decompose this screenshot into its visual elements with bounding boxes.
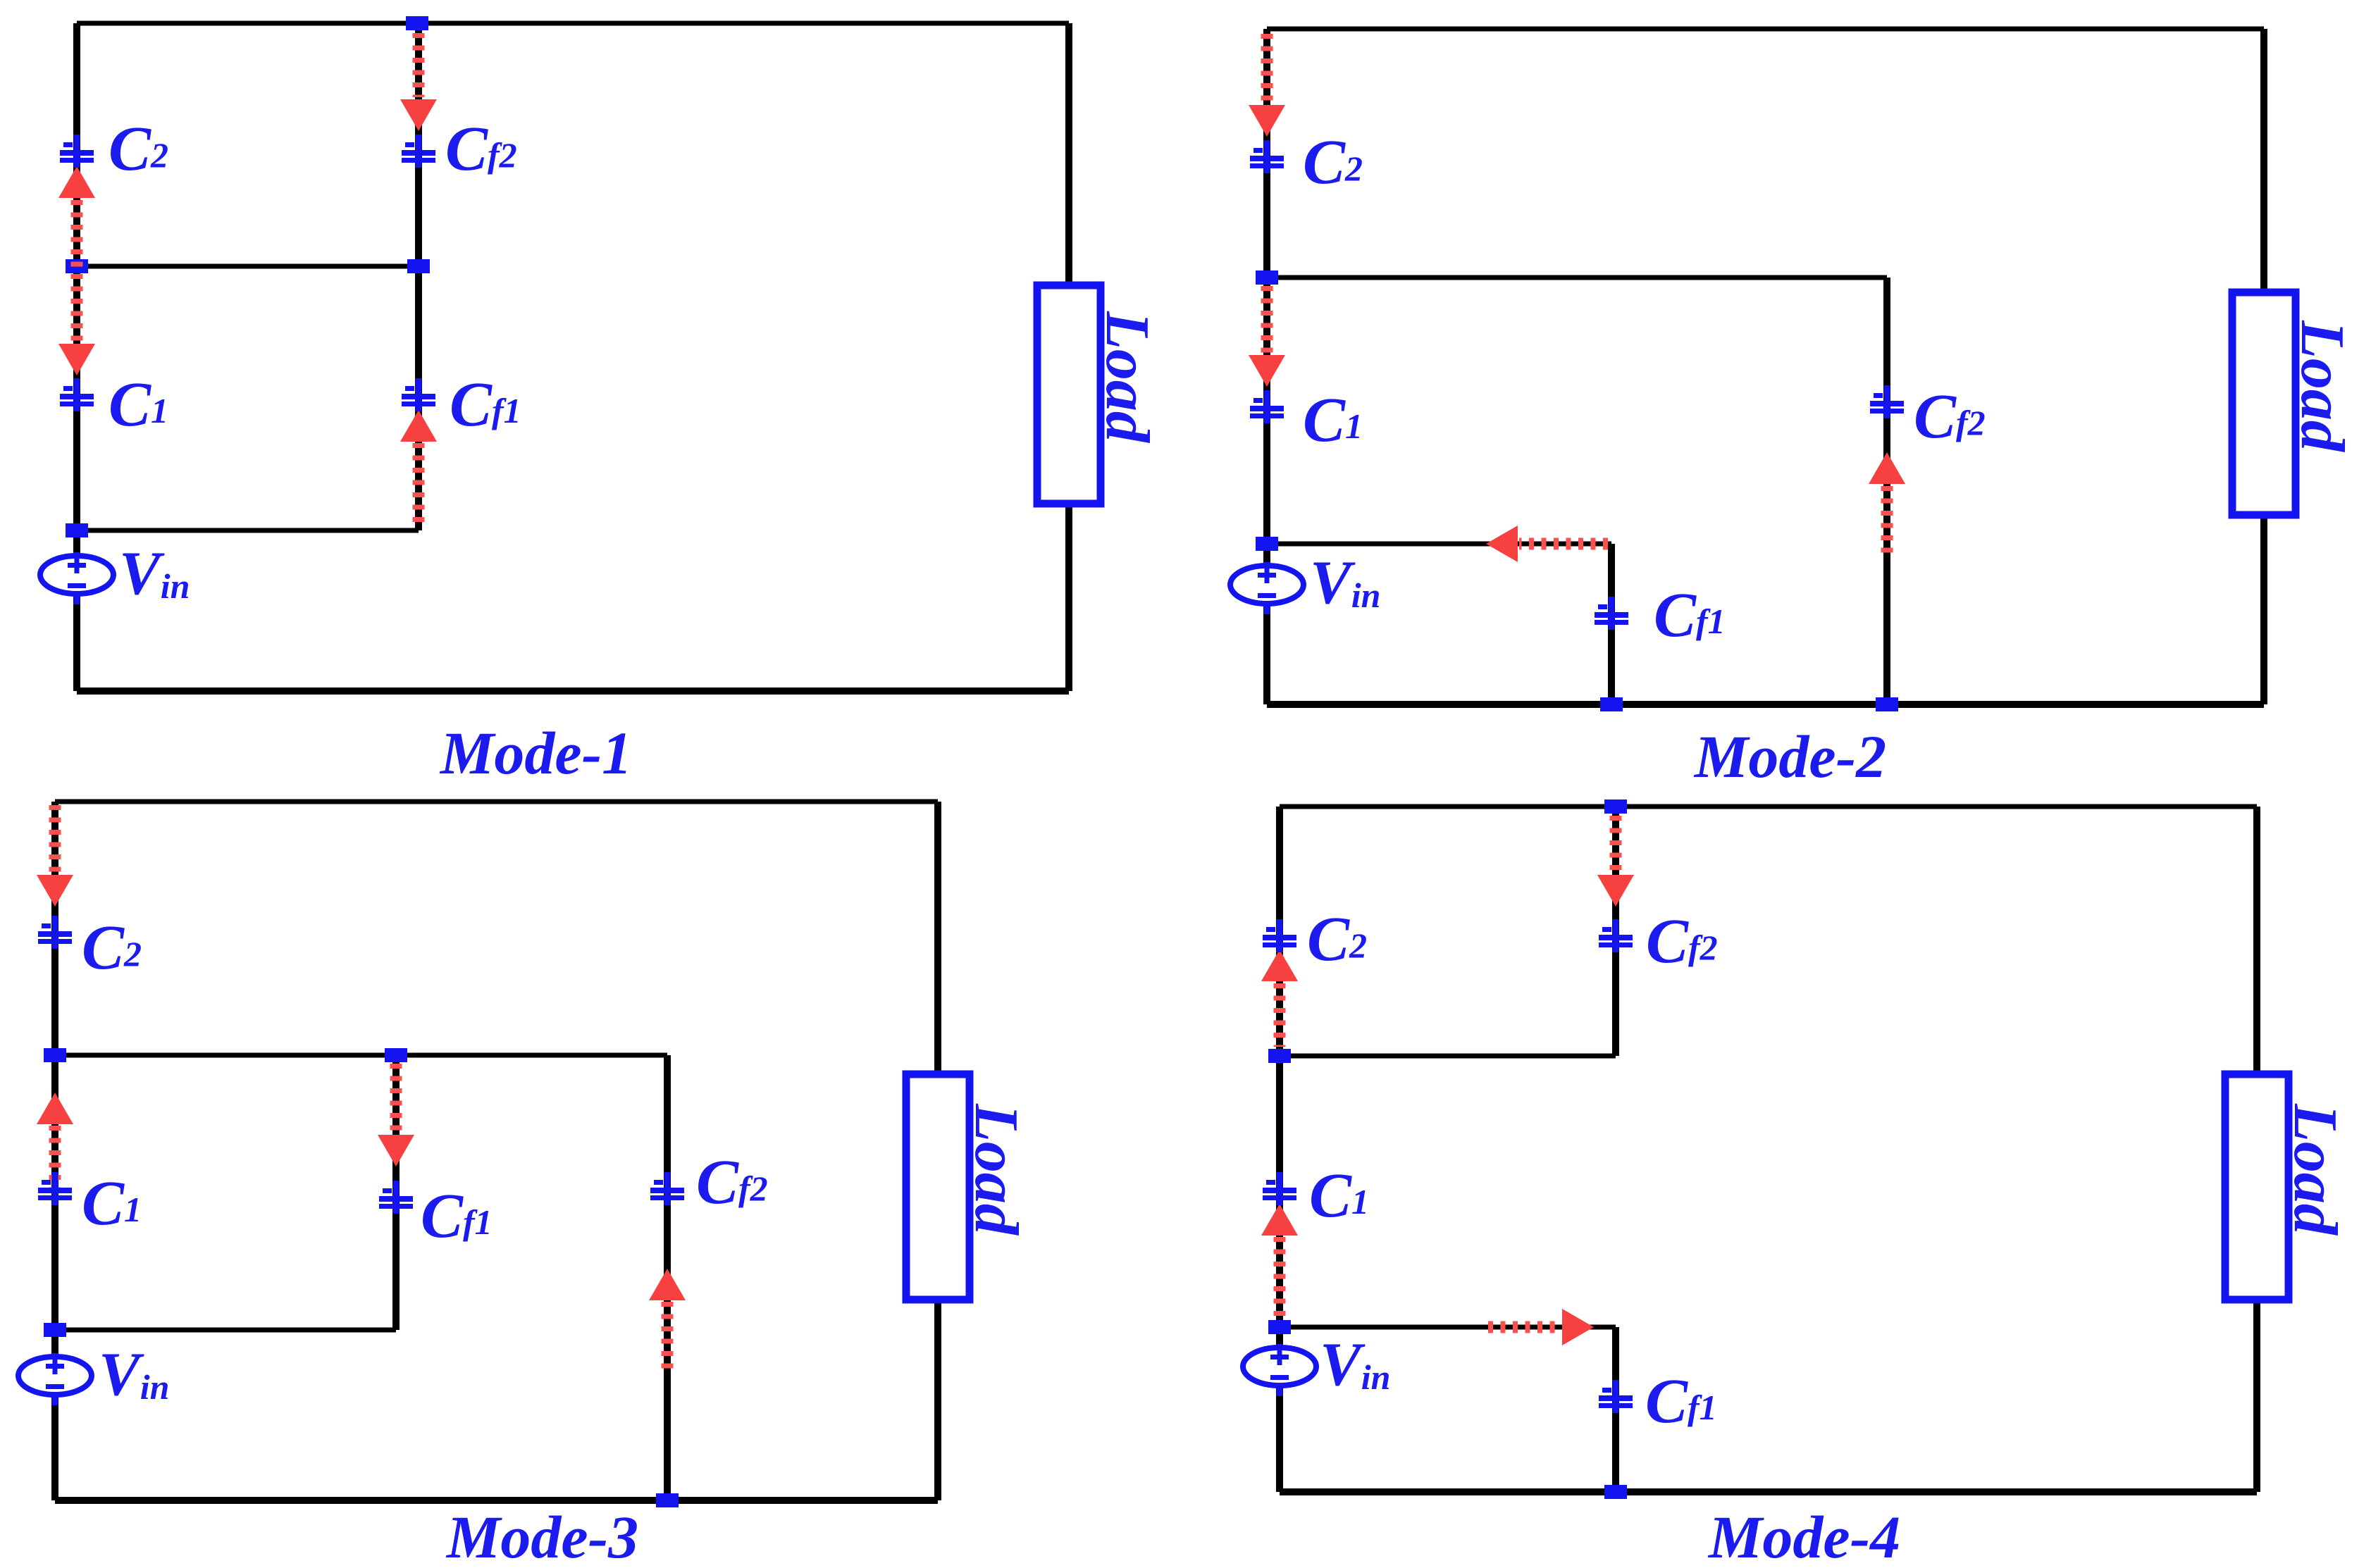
capacitor Cf1 (Mode-4) — [1599, 1380, 1633, 1413]
node m1 top-junction (junction square) — [406, 16, 428, 30]
wire m4 right upper — [2253, 807, 2260, 1078]
wire m3 right upper — [934, 802, 941, 1078]
capacitor C1 (Mode-2) — [1250, 390, 1284, 423]
wire m2 Cf1-branch — [1608, 544, 1615, 704]
wire m4 B-connector — [1280, 1325, 1616, 1330]
wire m4 A-connector — [1280, 1054, 1616, 1059]
node m1 node A right (junction square) — [407, 259, 430, 273]
wire m2 top-C2 current dashes — [1261, 34, 1273, 103]
wire m4 top-Cf2 current dashes — [1610, 816, 1622, 873]
svg-text:Mode-3: Mode-3 — [445, 1503, 638, 1568]
current arrow m4 into C2 — [1261, 950, 1298, 981]
svg-text:Mode-2: Mode-2 — [1693, 723, 1886, 790]
wire m2 top — [1267, 27, 2264, 32]
current arrow m2 into Cf2 — [1869, 452, 1905, 484]
svg-text:Load: Load — [962, 1103, 1030, 1236]
wire m3 left — [51, 802, 58, 1500]
wire m4 left — [1276, 807, 1283, 1492]
wire m4 bottom — [1280, 1488, 2257, 1495]
current arrow m3 into C2 — [37, 875, 73, 907]
node m4 node B (junction square) — [1268, 1320, 1291, 1334]
wire m1 top-Cf2 current dashes — [413, 33, 425, 97]
current arrow m1 into Cf2 — [400, 99, 437, 131]
wire m2 corner-arrow current dashes — [1519, 538, 1608, 550]
wire m2 B-connector — [1267, 542, 1611, 547]
node m3 node B (junction square) — [44, 1323, 66, 1337]
wire m2 A-C1 current dashes — [1261, 286, 1273, 353]
svg-text:Load: Load — [1093, 311, 1161, 444]
node m1 node A left (junction square) — [66, 259, 88, 273]
capacitor Cf2 (Mode-3) — [650, 1172, 684, 1205]
current arrow m1 into Cf1 — [400, 410, 437, 442]
wire m2 right lower — [2260, 513, 2267, 704]
capacitor Cf2 (Mode-4) — [1599, 919, 1633, 952]
load resistor m3-load — [906, 1074, 1030, 1300]
capacitor Cf1 (Mode-2) — [1595, 597, 1628, 630]
wire m3 Cf2-branch — [664, 1055, 671, 1500]
node m3 node A2 (junction square) — [385, 1048, 407, 1062]
current arrow m1 into C1 — [58, 344, 95, 375]
voltage source Vin (Mode-1) — [40, 552, 113, 604]
wire m4 B-C1 current dashes — [1274, 1237, 1286, 1318]
wire m1 A-connector — [77, 264, 419, 269]
voltage source Vin (Mode-2) — [1230, 562, 1304, 614]
current arrow m3 into Cf2 — [649, 1269, 686, 1300]
current arrow m2 into C1 — [1249, 355, 1285, 387]
wire m4 A-C2 current dashes — [1274, 983, 1286, 1047]
current arrow m2 toward Vin — [1486, 525, 1518, 562]
load resistor m1-load — [1037, 285, 1161, 504]
wire m1 Cf1-B current dashes — [413, 443, 425, 524]
current arrow m4 into C1 — [1261, 1204, 1298, 1236]
wire m4 Cf1-branch — [1612, 1327, 1619, 1492]
current arrow m4 into Cf2 — [1597, 875, 1634, 907]
capacitor Cf2 (Mode-1) — [402, 135, 435, 168]
node m4 top-junction (junction square) — [1604, 799, 1627, 814]
capacitor C2 (Mode-2) — [1250, 140, 1284, 173]
wire m3 Cf1-branch — [392, 1055, 400, 1330]
voltage source Vin (Mode-4) — [1243, 1344, 1316, 1396]
current arrow m3 toward A — [37, 1093, 73, 1124]
capacitor C2 (Mode-3) — [38, 916, 72, 949]
node m4 Cf1 bottom (junction square) — [1604, 1485, 1627, 1499]
node m4 node A (junction square) — [1268, 1049, 1291, 1063]
wire m3 bottom-Cf2 current dashes — [662, 1302, 674, 1374]
svg-text:Mode-4: Mode-4 — [1707, 1503, 1900, 1568]
wire m3 right lower — [934, 1298, 941, 1500]
node m2 node A (junction square) — [1256, 270, 1278, 285]
wire m2 bottom — [1267, 701, 2264, 708]
wire m3 A-connector — [55, 1053, 667, 1058]
wire m1 right lower — [1065, 502, 1072, 691]
node m2 Cf1 bottom (junction square) — [1600, 697, 1623, 711]
current arrow m4 toward Cf1 — [1562, 1309, 1594, 1345]
wire m1 left — [73, 23, 80, 691]
svg-text:Mode-1: Mode-1 — [439, 719, 632, 787]
wire m3 A2-Cf1 current dashes — [390, 1064, 402, 1133]
svg-text:Load: Load — [2281, 1103, 2349, 1236]
wire m1 C2-A-C1 current dashes — [71, 200, 83, 342]
wire m3 bottom — [55, 1497, 938, 1504]
wire m3 B-connector — [55, 1328, 396, 1333]
node m1 node B (junction square) — [66, 523, 88, 537]
capacitor C1 (Mode-1) — [60, 378, 94, 411]
wire m1 B-connector — [77, 528, 419, 533]
wire m2 A-connector — [1267, 275, 1887, 280]
wire m2 left — [1263, 29, 1270, 704]
node m2 Cf2 bottom (junction square) — [1876, 697, 1898, 711]
capacitor C1 (Mode-4) — [1263, 1172, 1296, 1205]
wire m2 right upper — [2260, 29, 2267, 296]
capacitor Cf1 (Mode-3) — [379, 1181, 413, 1214]
current arrow m1 into C2 — [58, 166, 95, 198]
wire m3 top — [55, 799, 938, 804]
capacitor Cf1 (Mode-1) — [402, 378, 435, 411]
node m2 node B (junction square) — [1256, 537, 1278, 551]
capacitor C1 (Mode-3) — [38, 1172, 72, 1205]
node m3 node A (junction square) — [44, 1048, 66, 1062]
node m3 Cf2 bottom (junction square) — [656, 1493, 679, 1507]
load resistor m4-load — [2225, 1074, 2349, 1300]
load resistor m2-load — [2232, 292, 2356, 515]
wire m4 right lower — [2253, 1298, 2260, 1492]
capacitor C2 (Mode-1) — [60, 135, 94, 168]
capacitor Cf2 (Mode-2) — [1870, 385, 1904, 418]
wire m1 Cf-branch — [415, 23, 422, 530]
wire m2 Cf2-branch — [1883, 278, 1890, 704]
current arrow m3 into Cf1 — [378, 1135, 414, 1166]
wire m1 top — [77, 21, 1069, 26]
svg-text:Load: Load — [2288, 320, 2356, 453]
wire m3 top-C2 current dashes — [49, 805, 61, 873]
current arrow m2 into C2 — [1249, 105, 1285, 137]
wire m1 bottom — [77, 687, 1069, 695]
wire m4 Cf2-branch — [1612, 807, 1619, 1056]
wire m3 C1-A current dashes — [49, 1126, 61, 1196]
wire m4 B-arrow current dashes — [1488, 1321, 1557, 1333]
capacitor C2 (Mode-4) — [1263, 919, 1296, 952]
voltage source Vin (Mode-3) — [18, 1353, 92, 1405]
wire m4 top — [1280, 804, 2257, 809]
wire m1 right upper — [1065, 23, 1072, 289]
wire m2 bottom-Cf2 current dashes — [1881, 486, 1893, 555]
